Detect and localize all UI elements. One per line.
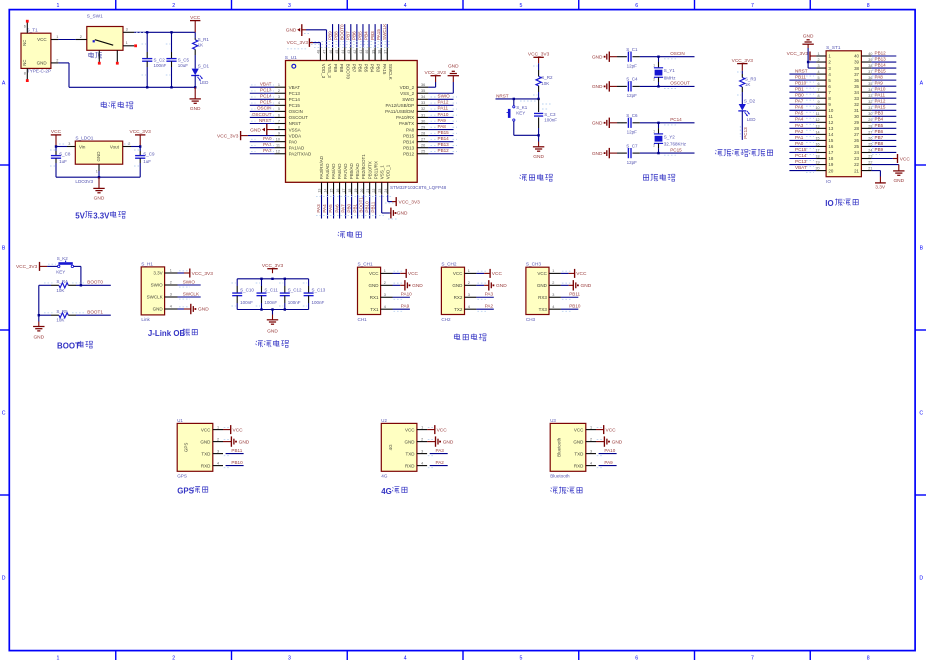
svg-text:7: 7 bbox=[818, 88, 820, 92]
svg-text:PB2/BOOT1: PB2/BOOT1 bbox=[361, 154, 366, 180]
svg-text:2: 2 bbox=[468, 281, 470, 285]
net label NRST wire bbox=[496, 98, 539, 100]
svg-text:9: 9 bbox=[278, 131, 280, 135]
svg-text:3: 3 bbox=[288, 3, 291, 9]
svg-text:PA11/USB/DM: PA11/USB/DM bbox=[385, 109, 414, 114]
svg-text:4G: 4G bbox=[381, 473, 388, 478]
svg-text:U1: U1 bbox=[177, 418, 183, 423]
svg-text:20: 20 bbox=[828, 168, 833, 173]
title 程序运行指示灯 bbox=[715, 150, 722, 157]
power port VCC at ST1 pin 23 bbox=[871, 158, 893, 160]
svg-text:PC13: PC13 bbox=[289, 91, 301, 96]
svg-text:32: 32 bbox=[421, 107, 425, 111]
svg-text:GND: GND bbox=[405, 439, 416, 444]
svg-text:IO: IO bbox=[825, 199, 833, 208]
svg-text:11: 11 bbox=[816, 112, 820, 116]
svg-text:3: 3 bbox=[818, 64, 820, 68]
svg-text:4: 4 bbox=[217, 461, 219, 465]
svg-text:S_C2: S_C2 bbox=[154, 57, 166, 62]
svg-text:32: 32 bbox=[854, 102, 859, 107]
svg-text:U3: U3 bbox=[550, 418, 556, 423]
svg-text:VSS_3: VSS_3 bbox=[327, 64, 332, 79]
svg-text:3.3V: 3.3V bbox=[153, 271, 162, 276]
svg-text:VCC: VCC bbox=[37, 37, 47, 42]
svg-text:VCC_3V3: VCC_3V3 bbox=[732, 58, 754, 64]
svg-text:12: 12 bbox=[276, 150, 280, 154]
svg-text:SWCLK: SWCLK bbox=[382, 23, 387, 40]
svg-text:VCC_3V3: VCC_3V3 bbox=[287, 40, 309, 46]
svg-text:100nF: 100nF bbox=[288, 300, 301, 305]
junction ground rail bbox=[98, 176, 100, 178]
svg-text:S_C3: S_C3 bbox=[544, 112, 556, 117]
svg-text:PC15: PC15 bbox=[795, 147, 807, 152]
svg-text:5V: 5V bbox=[75, 212, 85, 221]
svg-text:PB10: PB10 bbox=[795, 81, 807, 86]
svg-text:10K: 10K bbox=[56, 318, 64, 323]
svg-text:PA10: PA10 bbox=[604, 448, 615, 453]
svg-text:GND: GND bbox=[200, 439, 211, 444]
svg-text:1: 1 bbox=[590, 425, 592, 429]
svg-text:3: 3 bbox=[590, 449, 592, 453]
svg-text:13: 13 bbox=[318, 189, 322, 193]
svg-text:VCC: VCC bbox=[51, 129, 62, 135]
svg-text:1: 1 bbox=[468, 269, 470, 273]
svg-text:39: 39 bbox=[868, 58, 872, 62]
svg-text:2: 2 bbox=[278, 89, 280, 93]
right pin stubs of ST1 bbox=[861, 55, 871, 57]
svg-text:17: 17 bbox=[815, 148, 819, 152]
svg-text:PA3: PA3 bbox=[316, 204, 321, 213]
svg-text:VCC: VCC bbox=[405, 427, 415, 432]
svg-text:VCC: VCC bbox=[201, 427, 211, 432]
svg-text:VCC_3V3: VCC_3V3 bbox=[399, 199, 421, 205]
svg-text:GND: GND bbox=[33, 334, 44, 340]
svg-text:PB5: PB5 bbox=[875, 123, 884, 128]
svg-text:GND: GND bbox=[369, 283, 380, 288]
svg-text:Vout: Vout bbox=[110, 145, 120, 150]
svg-text:CH3: CH3 bbox=[526, 317, 536, 322]
title 串口电路 bbox=[454, 334, 460, 340]
pin 3 of SW1 (right top) bbox=[123, 31, 134, 33]
junction BOOT0 bbox=[80, 284, 82, 286]
svg-text:1: 1 bbox=[56, 35, 58, 39]
svg-text:PA9/TX: PA9/TX bbox=[399, 121, 414, 126]
svg-text:10: 10 bbox=[276, 137, 280, 141]
svg-text:VCC: VCC bbox=[437, 427, 448, 433]
svg-text:PA1/AD: PA1/AD bbox=[289, 145, 305, 150]
svg-text:SWIO: SWIO bbox=[402, 97, 414, 102]
bottom pins of SW1 (unconnected) bbox=[98, 50, 100, 62]
svg-text:VSS_2: VSS_2 bbox=[400, 91, 415, 96]
title 滤波电路 bbox=[256, 340, 263, 347]
svg-text:22: 22 bbox=[372, 189, 376, 193]
svg-text:SWCLK: SWCLK bbox=[388, 64, 393, 80]
svg-text:BOOT: BOOT bbox=[57, 342, 80, 351]
svg-text:Vin: Vin bbox=[79, 145, 86, 150]
power port 3.3V at ST1 pin 21 bbox=[871, 170, 880, 172]
junction LDO input node bbox=[55, 145, 57, 147]
svg-text:PB0: PB0 bbox=[346, 203, 351, 212]
svg-text:3.3V: 3.3V bbox=[875, 185, 886, 191]
svg-text:PA7: PA7 bbox=[340, 204, 345, 213]
crystal S_Y1 8MHz bbox=[657, 56, 659, 58]
junction at C5 top bbox=[170, 31, 172, 33]
svg-text:45: 45 bbox=[335, 50, 339, 54]
svg-text:NRST: NRST bbox=[795, 68, 808, 73]
svg-text:PA11: PA11 bbox=[438, 106, 449, 111]
svg-text:VCC: VCC bbox=[369, 271, 379, 276]
svg-text:2: 2 bbox=[552, 281, 554, 285]
svg-text:PB15: PB15 bbox=[403, 133, 415, 138]
pushbutton S_K1 KEY bbox=[513, 99, 515, 106]
svg-text:3: 3 bbox=[421, 449, 423, 453]
svg-text:PA6: PA6 bbox=[795, 105, 804, 110]
pin 2 of LDO1 bbox=[123, 146, 131, 148]
svg-text:26: 26 bbox=[868, 136, 872, 140]
svg-text:TX3: TX3 bbox=[539, 307, 548, 312]
svg-text:31: 31 bbox=[854, 108, 859, 113]
svg-text:40: 40 bbox=[365, 50, 369, 54]
svg-text:33: 33 bbox=[421, 101, 425, 105]
svg-text:C: C bbox=[919, 411, 923, 417]
capacitor S_C9 1uF bbox=[139, 147, 141, 152]
svg-text:21: 21 bbox=[854, 168, 859, 173]
junction at LED bottom rail bbox=[194, 86, 196, 88]
regulator S_LDO1 LDO3V3 bbox=[75, 141, 122, 164]
svg-text:PA9: PA9 bbox=[604, 460, 613, 465]
svg-text:18: 18 bbox=[348, 189, 352, 193]
svg-text:8: 8 bbox=[24, 72, 26, 76]
svg-text:S_K2: S_K2 bbox=[57, 256, 69, 261]
svg-text:PB12: PB12 bbox=[438, 148, 450, 153]
svg-text:GND: GND bbox=[573, 439, 584, 444]
svg-text:VBAT: VBAT bbox=[260, 82, 272, 87]
svg-text:2: 2 bbox=[653, 143, 655, 147]
svg-text:26: 26 bbox=[854, 138, 859, 143]
header S_ST1 IO body bbox=[826, 51, 861, 177]
svg-text:40: 40 bbox=[854, 54, 859, 59]
svg-text:RXD: RXD bbox=[405, 463, 415, 468]
svg-text:28: 28 bbox=[421, 131, 425, 135]
svg-text:PC14: PC14 bbox=[289, 97, 301, 102]
svg-text:PA2: PA2 bbox=[263, 148, 272, 153]
svg-text:OSCOUT: OSCOUT bbox=[252, 112, 272, 117]
svg-text:VCC: VCC bbox=[453, 271, 463, 276]
svg-text:PC14: PC14 bbox=[795, 153, 807, 158]
svg-text:38: 38 bbox=[377, 50, 381, 54]
svg-text:PA10: PA10 bbox=[401, 292, 412, 297]
title 复位电路 bbox=[520, 174, 527, 181]
svg-text:VCC: VCC bbox=[408, 271, 419, 277]
svg-text:10uF: 10uF bbox=[178, 63, 189, 68]
svg-text:PC14: PC14 bbox=[260, 94, 272, 99]
power ground GND filter bbox=[272, 310, 274, 315]
svg-text:VCC: VCC bbox=[190, 15, 201, 21]
wire T1.1 to SW1.2 bbox=[58, 39, 75, 41]
svg-text:29: 29 bbox=[854, 120, 859, 125]
svg-text:GND: GND bbox=[612, 439, 623, 445]
junction NRST/R2/C3 bbox=[537, 98, 539, 100]
pin 3 of LDO1 bbox=[67, 146, 75, 148]
svg-text:PA10: PA10 bbox=[875, 87, 886, 92]
svg-text:PB4: PB4 bbox=[364, 31, 369, 40]
svg-text:16: 16 bbox=[828, 144, 833, 149]
svg-text:6: 6 bbox=[24, 25, 26, 29]
svg-text:S_R1: S_R1 bbox=[198, 37, 210, 42]
svg-text:PB11: PB11 bbox=[231, 448, 242, 453]
svg-text:GND: GND bbox=[190, 106, 201, 112]
svg-text:28: 28 bbox=[868, 124, 872, 128]
svg-text:PB13: PB13 bbox=[875, 56, 887, 61]
svg-text:35: 35 bbox=[854, 84, 859, 89]
svg-text:12pF: 12pF bbox=[627, 93, 638, 98]
svg-text:PB10/TX: PB10/TX bbox=[367, 161, 372, 179]
svg-text:41: 41 bbox=[359, 50, 363, 54]
svg-text:25: 25 bbox=[868, 142, 872, 146]
pin 1 VCC of T1 bbox=[51, 39, 59, 41]
svg-text:PA6: PA6 bbox=[334, 204, 339, 213]
svg-text:14: 14 bbox=[324, 189, 328, 193]
svg-text:PB3: PB3 bbox=[875, 111, 884, 116]
title 蓝牙模块 bbox=[550, 487, 557, 494]
junction at C2 bottom bbox=[146, 86, 148, 88]
svg-text:1: 1 bbox=[170, 269, 172, 273]
svg-text:PA2: PA2 bbox=[485, 303, 494, 308]
svg-text:NC: NC bbox=[22, 59, 27, 65]
header S_CH2 serial bbox=[441, 267, 464, 314]
pin 6 of T1 (top, unconnected) bbox=[26, 22, 28, 33]
pin 1 GND of LDO1 bbox=[98, 164, 100, 171]
svg-text:PB7: PB7 bbox=[875, 135, 884, 140]
svg-text:34: 34 bbox=[868, 88, 872, 92]
svg-text:GND: GND bbox=[267, 328, 278, 334]
svg-text:S_C5: S_C5 bbox=[178, 57, 190, 62]
svg-text:38: 38 bbox=[868, 64, 872, 68]
svg-text:PA4: PA4 bbox=[795, 117, 804, 122]
svg-text:B: B bbox=[2, 246, 6, 252]
svg-text:1: 1 bbox=[818, 52, 820, 56]
svg-text:TXD: TXD bbox=[574, 451, 584, 456]
svg-text:PA15: PA15 bbox=[376, 29, 381, 40]
svg-text:VCC: VCC bbox=[900, 156, 911, 162]
svg-text:PA15: PA15 bbox=[382, 64, 387, 75]
svg-text:PC14: PC14 bbox=[670, 117, 682, 122]
svg-text:2: 2 bbox=[56, 58, 58, 62]
svg-text:1: 1 bbox=[217, 425, 219, 429]
svg-text:7: 7 bbox=[278, 119, 280, 123]
power port VCC_3V3 at mcu pin 36 VDD_2 bbox=[428, 86, 435, 88]
svg-text:GPS: GPS bbox=[177, 487, 194, 496]
svg-text:J-Link OB: J-Link OB bbox=[148, 329, 186, 338]
svg-text:VSS_1: VSS_1 bbox=[379, 165, 384, 180]
svg-text:100nF: 100nF bbox=[312, 300, 325, 305]
svg-text:VCC_3V3: VCC_3V3 bbox=[787, 51, 809, 57]
svg-text:37: 37 bbox=[383, 50, 387, 54]
svg-text:30: 30 bbox=[868, 112, 872, 116]
svg-text:29: 29 bbox=[421, 125, 425, 129]
svg-text:5: 5 bbox=[519, 655, 522, 660]
svg-text:PA7/AD: PA7/AD bbox=[343, 163, 348, 179]
svg-text:100nF: 100nF bbox=[154, 63, 167, 68]
svg-text:C: C bbox=[2, 411, 6, 417]
svg-text:2: 2 bbox=[172, 655, 175, 660]
svg-text:GND: GND bbox=[94, 196, 105, 202]
svg-text:D: D bbox=[2, 576, 6, 582]
svg-text:36: 36 bbox=[868, 76, 872, 80]
svg-text:8: 8 bbox=[818, 94, 820, 98]
svg-text:VCC_3V3: VCC_3V3 bbox=[528, 52, 550, 58]
svg-text:NRST: NRST bbox=[259, 118, 272, 123]
svg-text:3: 3 bbox=[68, 142, 70, 146]
svg-text:VSSA: VSSA bbox=[289, 127, 301, 132]
svg-text:2: 2 bbox=[217, 437, 219, 441]
svg-text:8MHz: 8MHz bbox=[664, 75, 677, 80]
svg-text:PB12: PB12 bbox=[403, 151, 415, 156]
svg-text:RX2: RX2 bbox=[454, 295, 463, 300]
capacitor S_C13 100nF bbox=[308, 279, 310, 286]
svg-text:PA6/AD: PA6/AD bbox=[337, 163, 342, 179]
svg-text:PB0/AD: PB0/AD bbox=[349, 162, 354, 179]
svg-text:18: 18 bbox=[828, 156, 833, 161]
svg-text:15: 15 bbox=[330, 189, 334, 193]
svg-text:29: 29 bbox=[868, 118, 872, 122]
svg-text:GND: GND bbox=[448, 64, 459, 70]
resistor S_R4 10K bbox=[39, 284, 51, 286]
svg-text:19: 19 bbox=[815, 160, 819, 164]
svg-text:PB9: PB9 bbox=[333, 64, 338, 73]
power port VCC_3V3 at H1 pin 1 bbox=[178, 272, 185, 274]
svg-text:4: 4 bbox=[170, 305, 172, 309]
svg-text:PA2/TX/AD: PA2/TX/AD bbox=[289, 151, 312, 156]
svg-text:S_H1: S_H1 bbox=[141, 261, 153, 266]
svg-text:GND: GND bbox=[592, 84, 603, 90]
svg-text:PA2: PA2 bbox=[795, 129, 804, 134]
junction at C2 top bbox=[146, 31, 148, 33]
svg-text:S_Y1: S_Y1 bbox=[664, 68, 676, 73]
svg-text:PB9: PB9 bbox=[327, 31, 332, 40]
filter bottom rail bbox=[237, 309, 308, 311]
header S_H1 J-Link body bbox=[141, 267, 164, 315]
svg-text:1: 1 bbox=[56, 655, 59, 660]
svg-text:GND: GND bbox=[397, 211, 408, 217]
svg-text:31: 31 bbox=[868, 106, 872, 110]
svg-text:27: 27 bbox=[854, 132, 859, 137]
svg-text:26: 26 bbox=[421, 144, 425, 148]
svg-text:S_C8: S_C8 bbox=[59, 151, 71, 156]
svg-text:4G: 4G bbox=[381, 487, 392, 496]
switch S_SW1 bbox=[87, 27, 123, 51]
svg-text:VCC_3V3: VCC_3V3 bbox=[217, 133, 239, 139]
svg-text:NRST: NRST bbox=[289, 121, 302, 126]
mcu bottom net wires and labels (rotated) bbox=[321, 195, 323, 219]
svg-text:PB15: PB15 bbox=[438, 130, 450, 135]
svg-text:PB5: PB5 bbox=[364, 64, 369, 73]
svg-text:30: 30 bbox=[421, 119, 425, 123]
power ground GND at H1 pin 4 bbox=[178, 308, 185, 310]
svg-text:Bluetooth: Bluetooth bbox=[557, 437, 562, 457]
svg-text:11: 11 bbox=[276, 144, 280, 148]
svg-text:PB12: PB12 bbox=[875, 50, 887, 55]
svg-text:Bluetooth: Bluetooth bbox=[550, 473, 570, 478]
svg-text:8: 8 bbox=[278, 125, 280, 129]
svg-text:10: 10 bbox=[815, 106, 819, 110]
wire boot trunk bbox=[38, 285, 40, 315]
svg-text:4: 4 bbox=[404, 655, 407, 660]
svg-text:12pF: 12pF bbox=[627, 64, 638, 69]
svg-text:PA2: PA2 bbox=[436, 460, 445, 465]
svg-text:PA8: PA8 bbox=[875, 75, 884, 80]
svg-text:2: 2 bbox=[421, 437, 423, 441]
svg-text:S_R3: S_R3 bbox=[745, 76, 757, 81]
title 主芯片 bbox=[338, 231, 345, 238]
header S_CH1 serial bbox=[358, 267, 381, 314]
svg-text:S_R5: S_R5 bbox=[56, 309, 68, 314]
svg-text:21: 21 bbox=[366, 189, 370, 193]
svg-text:OSCOUT: OSCOUT bbox=[670, 81, 690, 86]
svg-text:100nF: 100nF bbox=[240, 300, 253, 305]
header S_CH3 serial bbox=[526, 267, 549, 314]
svg-text:PA9: PA9 bbox=[875, 81, 884, 86]
ST1 right net wires and labels bbox=[871, 55, 896, 57]
svg-text:TX1: TX1 bbox=[370, 307, 379, 312]
svg-text:6: 6 bbox=[635, 655, 638, 660]
svg-text:GND: GND bbox=[496, 283, 507, 289]
svg-text:12: 12 bbox=[815, 118, 819, 122]
svg-text:PA3: PA3 bbox=[795, 123, 804, 128]
svg-text:CH1: CH1 bbox=[358, 317, 368, 322]
svg-text:RXD: RXD bbox=[201, 463, 211, 468]
svg-text:33: 33 bbox=[868, 94, 872, 98]
svg-text:47: 47 bbox=[323, 50, 327, 54]
module U2 4G bbox=[381, 423, 417, 471]
svg-text:PB0: PB0 bbox=[795, 93, 804, 98]
resistor S_R1 1K bbox=[194, 32, 196, 38]
mcu U1 STM32F103C8T6_LQFP48 body bbox=[286, 61, 418, 183]
svg-text:1: 1 bbox=[278, 83, 280, 87]
svg-text:BOOT0: BOOT0 bbox=[87, 280, 103, 285]
svg-text:S_SW1: S_SW1 bbox=[87, 14, 103, 19]
svg-text:SWIO: SWIO bbox=[438, 94, 451, 99]
svg-text:7: 7 bbox=[751, 3, 754, 9]
svg-text:OSCOUT: OSCOUT bbox=[289, 115, 309, 120]
svg-text:TXD: TXD bbox=[201, 451, 211, 456]
svg-text:3: 3 bbox=[217, 449, 219, 453]
svg-text:22: 22 bbox=[868, 160, 872, 164]
svg-text:S_ST1: S_ST1 bbox=[826, 45, 841, 50]
svg-text:25: 25 bbox=[854, 144, 859, 149]
capacitor S_C12 100nF bbox=[284, 279, 286, 286]
crystal S_Y2 32.768KHz bbox=[657, 122, 659, 124]
svg-text:PB4: PB4 bbox=[370, 64, 375, 73]
svg-text:PB1/AD: PB1/AD bbox=[355, 162, 360, 179]
svg-text:GND: GND bbox=[803, 34, 814, 40]
svg-text:8: 8 bbox=[867, 3, 870, 9]
svg-text:39: 39 bbox=[854, 60, 859, 65]
svg-text:RX3: RX3 bbox=[538, 295, 547, 300]
svg-text:4: 4 bbox=[404, 3, 407, 9]
svg-text:23: 23 bbox=[868, 154, 872, 158]
svg-text:GND: GND bbox=[581, 283, 592, 289]
svg-text:6: 6 bbox=[818, 82, 820, 86]
junction LDO output node bbox=[139, 145, 141, 147]
svg-text:PB3: PB3 bbox=[376, 64, 381, 73]
svg-text:PA5/AD: PA5/AD bbox=[331, 163, 336, 179]
svg-text:6: 6 bbox=[278, 113, 280, 117]
svg-text:32: 32 bbox=[868, 100, 872, 104]
svg-text:VDD_2: VDD_2 bbox=[400, 85, 415, 90]
svg-text:1K: 1K bbox=[198, 43, 204, 48]
svg-text:37: 37 bbox=[854, 72, 859, 77]
